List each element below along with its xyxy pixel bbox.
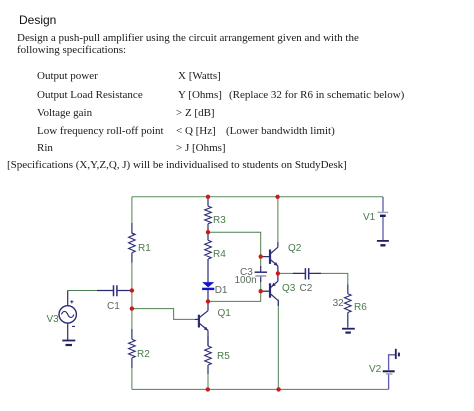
- resistor R6: [345, 285, 352, 328]
- wire D1 bottom to Q3 base branch: [208, 291, 261, 301]
- label C2: [300, 283, 313, 294]
- ground below V1: [377, 241, 389, 245]
- wire R5 to bottom rail: [207, 374, 209, 389]
- junction node R3 bottom: [206, 230, 210, 234]
- battery V1: [378, 197, 389, 240]
- wire bottom rail: [132, 388, 389, 390]
- junction node base tap: [130, 306, 134, 310]
- spec rows: [37, 70, 98, 82]
- label 32 value of R6: [333, 298, 344, 309]
- wire Q3 emitter vertical: [277, 273, 279, 280]
- wire top rail: [132, 196, 383, 198]
- wire output node to R6: [278, 273, 348, 284]
- wire Q2 collector vertical: [277, 197, 279, 247]
- label Q3: [282, 283, 295, 294]
- label V1: [363, 212, 375, 223]
- label C1: [107, 301, 120, 312]
- label D1: [215, 285, 228, 296]
- junction node bottom rail Q3: [276, 387, 280, 391]
- wire C3 vertical: [260, 257, 262, 292]
- heading: [19, 13, 56, 27]
- junction node bottom rail R5: [206, 387, 210, 391]
- battery V2: [383, 355, 396, 390]
- label R2: [137, 349, 150, 360]
- ground right of V2 (rotated): [396, 349, 399, 359]
- transistor Q3: [263, 275, 278, 307]
- resistor R1: [129, 223, 136, 263]
- ground below V3: [62, 341, 75, 346]
- wire left rail: [131, 197, 133, 390]
- label R3: [213, 215, 226, 226]
- source V3: [59, 291, 76, 341]
- transistor Q2: [263, 242, 278, 272]
- wire Q3 collector vertical: [277, 300, 279, 390]
- capacitor C1: [97, 285, 131, 296]
- ground below R6: [342, 329, 355, 333]
- label R4: [213, 249, 226, 260]
- diode D1: [202, 259, 214, 301]
- label 100n value of C3: [235, 275, 257, 286]
- junction node R3 top: [206, 195, 210, 199]
- paragraph: [17, 32, 359, 44]
- resistor R4: [205, 232, 212, 259]
- label Q1: [218, 308, 231, 319]
- wire R3 bottom to C3 branch: [208, 232, 261, 256]
- junction node Q3 base: [259, 289, 263, 293]
- junction node D1 bottom: [206, 299, 210, 303]
- junction node C1-right: [130, 288, 134, 292]
- transistor Q1: [195, 301, 208, 346]
- wire Q1 base L: [132, 309, 195, 320]
- wire Q2 base stub: [261, 256, 269, 258]
- capacitor C3: [255, 266, 267, 282]
- label C3: [240, 267, 253, 278]
- label V3: [47, 314, 59, 325]
- label R5: [217, 351, 230, 362]
- label R1: [138, 243, 151, 254]
- junction node output: [276, 271, 280, 275]
- label Q2: [288, 243, 301, 254]
- capacitor C2: [293, 268, 321, 279]
- resistor R3: [205, 197, 212, 232]
- wire Q2 emitter vertical: [277, 266, 279, 274]
- junction node Q2 base: [259, 254, 263, 258]
- wire Q3 base stub: [261, 290, 269, 292]
- resistor R5: [205, 336, 212, 374]
- label R6: [354, 302, 367, 313]
- resistor R2: [129, 329, 136, 368]
- junction node top rail Q2 collector: [275, 195, 279, 199]
- wire V3 to C1: [68, 290, 132, 292]
- label V2: [369, 364, 381, 375]
